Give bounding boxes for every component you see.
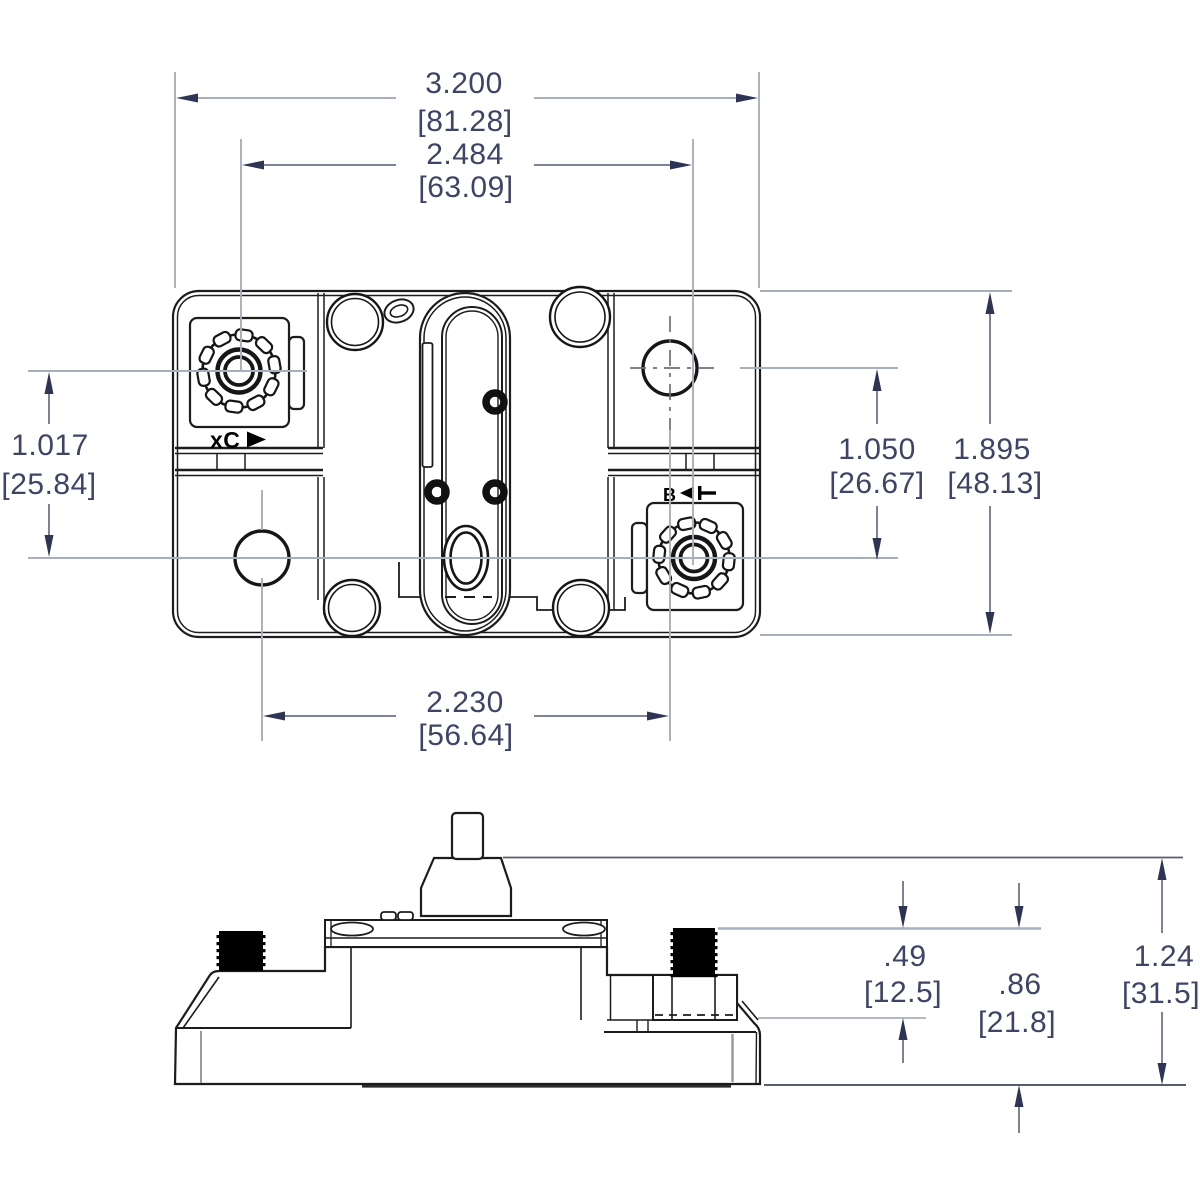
svg-text:[12.5]: [12.5] — [864, 976, 942, 1009]
svg-text:2.230: 2.230 — [426, 686, 504, 719]
svg-text:1.895: 1.895 — [953, 433, 1031, 466]
svg-text:[48.13]: [48.13] — [947, 467, 1042, 500]
svg-text:xC: xC — [210, 427, 240, 453]
svg-text:.49: .49 — [883, 940, 926, 973]
svg-text:1.017: 1.017 — [11, 429, 89, 462]
svg-text:2.484: 2.484 — [426, 138, 504, 171]
svg-text:[31.5]: [31.5] — [1122, 977, 1200, 1010]
svg-text:1.050: 1.050 — [838, 433, 916, 466]
svg-text:.86: .86 — [998, 968, 1041, 1001]
svg-text:[81.28]: [81.28] — [417, 105, 512, 138]
svg-text:[63.09]: [63.09] — [418, 171, 513, 204]
svg-text:3.200: 3.200 — [425, 67, 503, 100]
svg-text:[21.8]: [21.8] — [978, 1006, 1056, 1039]
svg-text:[26.67]: [26.67] — [829, 467, 924, 500]
svg-text:[25.84]: [25.84] — [1, 468, 96, 501]
svg-text:[56.64]: [56.64] — [418, 719, 513, 752]
svg-text:1.24: 1.24 — [1134, 940, 1194, 973]
